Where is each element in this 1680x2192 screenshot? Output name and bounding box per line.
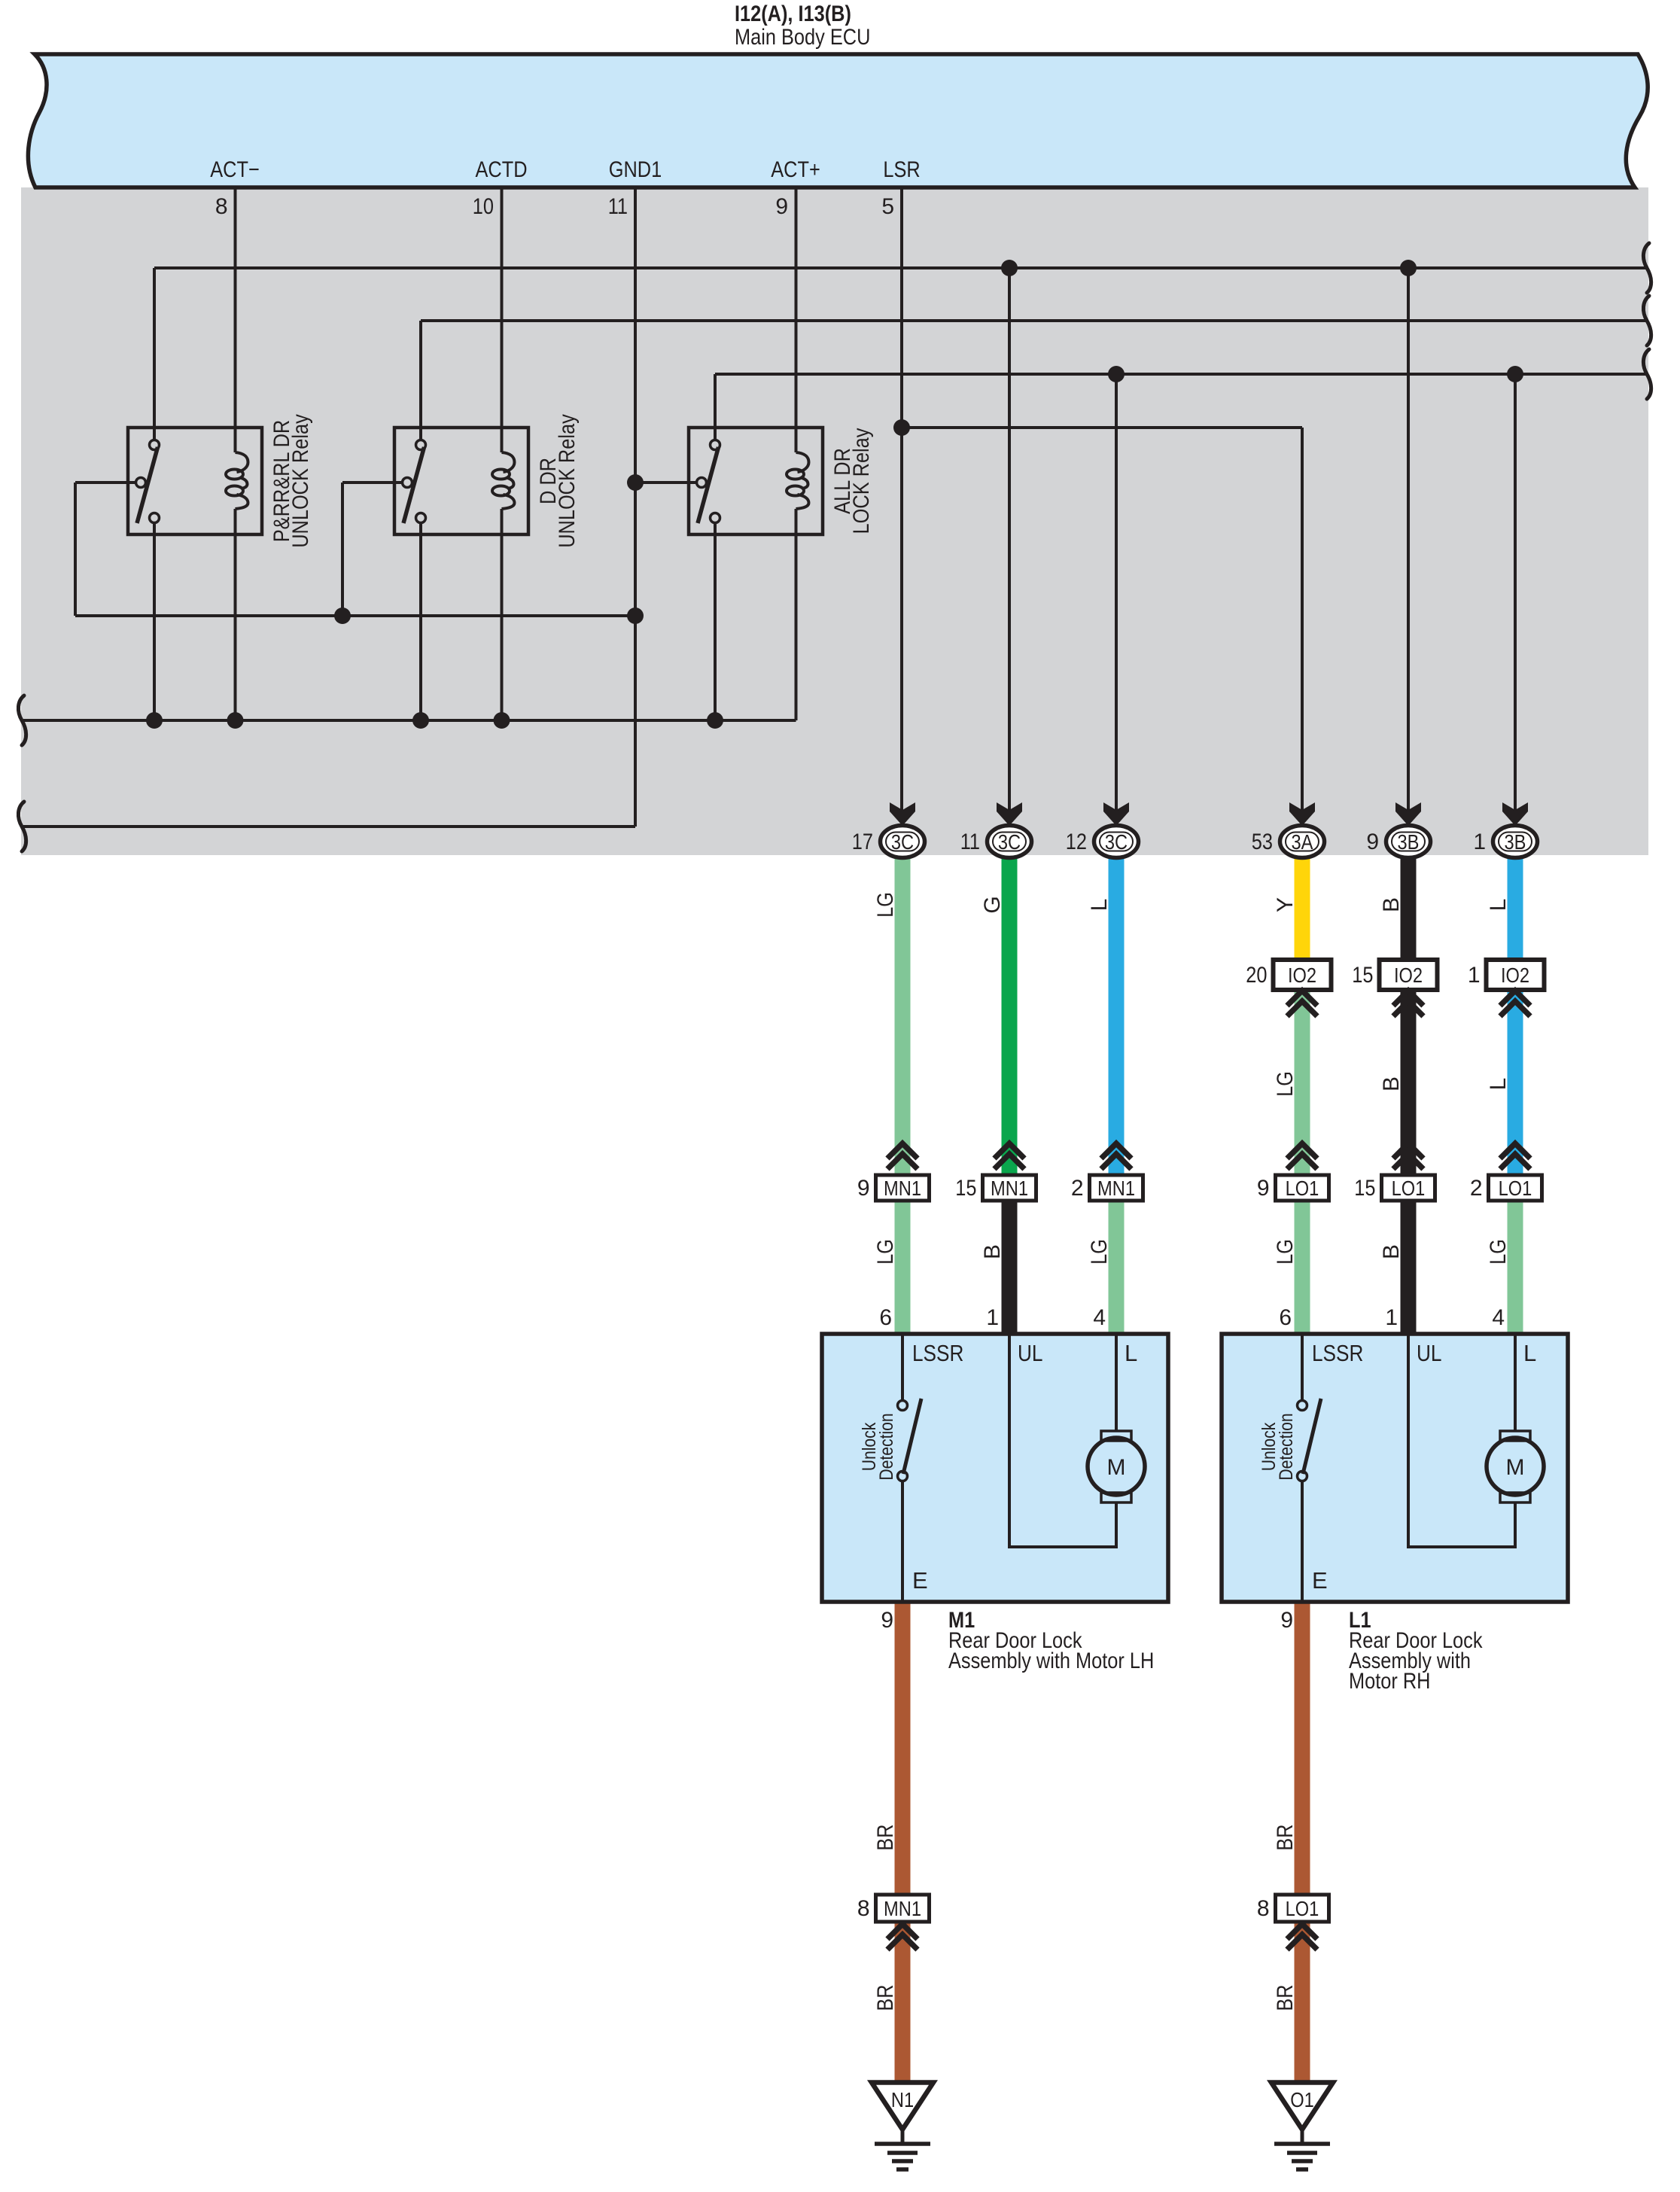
svg-text:IO2: IO2 bbox=[1288, 964, 1316, 987]
svg-text:15: 15 bbox=[1354, 1176, 1375, 1201]
svg-text:UNLOCK Relay: UNLOCK Relay bbox=[555, 414, 580, 548]
svg-text:4: 4 bbox=[1492, 1305, 1505, 1330]
svg-text:M: M bbox=[1506, 1455, 1525, 1480]
svg-text:N1: N1 bbox=[891, 2088, 914, 2111]
svg-text:LG: LG bbox=[1273, 1071, 1298, 1097]
svg-text:LG: LG bbox=[1087, 1239, 1112, 1265]
svg-text:Main Body ECU: Main Body ECU bbox=[735, 25, 870, 50]
svg-text:6: 6 bbox=[1279, 1305, 1292, 1330]
svg-text:9: 9 bbox=[857, 1176, 870, 1201]
svg-text:UL: UL bbox=[1018, 1340, 1043, 1366]
svg-text:3C: 3C bbox=[998, 830, 1021, 854]
svg-text:2: 2 bbox=[1470, 1176, 1483, 1201]
svg-text:B: B bbox=[1379, 1076, 1404, 1091]
svg-text:4: 4 bbox=[1093, 1305, 1106, 1330]
svg-text:9: 9 bbox=[775, 194, 788, 219]
svg-text:1: 1 bbox=[1468, 963, 1481, 988]
svg-text:Detection: Detection bbox=[876, 1413, 897, 1480]
svg-text:UL: UL bbox=[1417, 1340, 1442, 1366]
svg-text:Detection: Detection bbox=[1276, 1413, 1297, 1480]
svg-text:LG: LG bbox=[1486, 1239, 1511, 1265]
svg-text:L: L bbox=[1087, 899, 1112, 912]
svg-text:8: 8 bbox=[215, 194, 228, 219]
svg-text:8: 8 bbox=[857, 1896, 870, 1921]
svg-text:B: B bbox=[980, 1244, 1005, 1259]
svg-text:LO1: LO1 bbox=[1392, 1177, 1426, 1200]
svg-text:B: B bbox=[1379, 897, 1404, 912]
svg-text:3B: 3B bbox=[1398, 830, 1420, 854]
svg-text:BR: BR bbox=[1273, 1824, 1298, 1850]
svg-text:15: 15 bbox=[955, 1176, 976, 1201]
svg-text:IO2: IO2 bbox=[1501, 964, 1529, 987]
svg-text:LG: LG bbox=[873, 1239, 898, 1265]
svg-text:MN1: MN1 bbox=[884, 1177, 921, 1200]
svg-text:5: 5 bbox=[881, 194, 894, 219]
svg-text:LO1: LO1 bbox=[1286, 1177, 1319, 1200]
svg-text:LSSR: LSSR bbox=[912, 1340, 963, 1366]
svg-text:Assembly with Motor LH: Assembly with Motor LH bbox=[948, 1649, 1154, 1673]
svg-text:BR: BR bbox=[873, 1824, 898, 1850]
svg-text:LO1: LO1 bbox=[1286, 1897, 1319, 1920]
svg-text:L: L bbox=[1125, 1340, 1137, 1366]
svg-text:BR: BR bbox=[1273, 1984, 1298, 2011]
svg-text:O1: O1 bbox=[1290, 2088, 1314, 2111]
svg-text:ACT+: ACT+ bbox=[771, 157, 820, 182]
svg-text:20: 20 bbox=[1246, 963, 1267, 988]
svg-text:E: E bbox=[1312, 1567, 1328, 1594]
svg-text:Y: Y bbox=[1273, 897, 1298, 912]
svg-text:9: 9 bbox=[1366, 830, 1379, 854]
svg-text:GND1: GND1 bbox=[609, 157, 662, 182]
svg-text:3B: 3B bbox=[1505, 830, 1526, 854]
svg-text:LOCK Relay: LOCK Relay bbox=[849, 428, 874, 534]
svg-text:M: M bbox=[1107, 1455, 1126, 1480]
svg-text:L: L bbox=[1486, 899, 1511, 912]
svg-text:6: 6 bbox=[879, 1305, 892, 1330]
svg-text:MN1: MN1 bbox=[991, 1177, 1028, 1200]
svg-text:G: G bbox=[980, 896, 1005, 913]
svg-text:B: B bbox=[1379, 1244, 1404, 1259]
svg-text:12: 12 bbox=[1066, 830, 1087, 854]
svg-text:3A: 3A bbox=[1292, 830, 1313, 854]
svg-text:9: 9 bbox=[881, 1608, 893, 1633]
svg-text:MN1: MN1 bbox=[884, 1897, 921, 1920]
svg-text:ACT−: ACT− bbox=[210, 157, 260, 182]
svg-text:11: 11 bbox=[608, 194, 628, 219]
svg-text:17: 17 bbox=[852, 830, 873, 854]
svg-text:LG: LG bbox=[1273, 1239, 1298, 1265]
svg-text:2: 2 bbox=[1071, 1176, 1084, 1201]
svg-text:MN1: MN1 bbox=[1097, 1177, 1135, 1200]
svg-text:IO2: IO2 bbox=[1394, 964, 1423, 987]
svg-text:I12(A), I13(B): I12(A), I13(B) bbox=[735, 2, 851, 26]
svg-text:BR: BR bbox=[873, 1984, 898, 2011]
svg-text:1: 1 bbox=[1473, 830, 1486, 854]
svg-text:11: 11 bbox=[960, 830, 980, 854]
svg-text:15: 15 bbox=[1352, 963, 1373, 988]
svg-text:ACTD: ACTD bbox=[476, 157, 528, 182]
svg-text:3C: 3C bbox=[1105, 830, 1128, 854]
svg-text:UNLOCK Relay: UNLOCK Relay bbox=[288, 414, 313, 548]
svg-text:53: 53 bbox=[1252, 830, 1273, 854]
svg-text:L: L bbox=[1486, 1078, 1511, 1091]
svg-text:8: 8 bbox=[1257, 1896, 1270, 1921]
svg-text:LSSR: LSSR bbox=[1312, 1340, 1363, 1366]
svg-text:10: 10 bbox=[473, 194, 494, 219]
svg-text:9: 9 bbox=[1280, 1608, 1293, 1633]
svg-text:LO1: LO1 bbox=[1499, 1177, 1532, 1200]
svg-text:Motor RH: Motor RH bbox=[1349, 1669, 1431, 1694]
svg-text:3C: 3C bbox=[891, 830, 914, 854]
svg-text:E: E bbox=[912, 1567, 928, 1594]
svg-text:LSR: LSR bbox=[883, 157, 920, 182]
svg-text:L: L bbox=[1523, 1340, 1536, 1366]
svg-text:LG: LG bbox=[873, 892, 898, 918]
svg-text:1: 1 bbox=[986, 1305, 999, 1330]
svg-text:9: 9 bbox=[1257, 1176, 1270, 1201]
svg-text:1: 1 bbox=[1385, 1305, 1398, 1330]
